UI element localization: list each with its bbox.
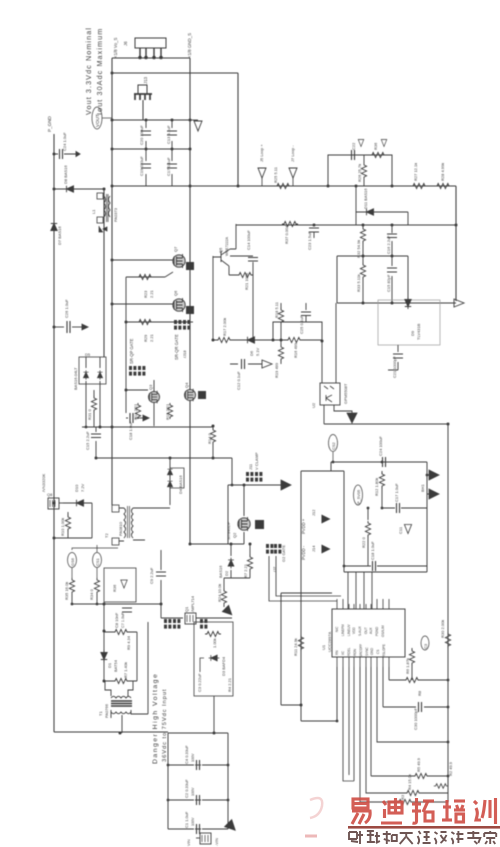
capacitor C20 330uF: [139, 120, 151, 149]
bias diode D1 BAT54: [101, 604, 118, 681]
net label PVDD: [301, 518, 306, 560]
resistor R18 5.11: [274, 301, 284, 340]
capacitor C22: [351, 140, 364, 161]
resistor R26 25.7k: [357, 155, 367, 186]
wire right sense vertical: [455, 186, 457, 301]
wire output rail C: [112, 119, 190, 121]
wire mid rail upper: [82, 426, 213, 428]
ground arrow top: [190, 120, 202, 131]
IC U1 pin names: [335, 624, 386, 657]
resistor R27 12.1k: [411, 163, 427, 189]
dual diode D5 BAS16-04LT: [73, 352, 106, 427]
diode D2 BAS16: [218, 544, 250, 590]
resistor R7b 1.40k: [104, 662, 137, 684]
wire opto output row: [324, 423, 448, 425]
warning text Danger High Voltage: [152, 673, 168, 764]
node BH1 arrows: [420, 470, 439, 499]
wire PVDD box: [344, 462, 427, 572]
capacitor C25 0.1uF: [299, 303, 311, 334]
capacitor C16 2.2uF: [386, 225, 397, 256]
diode D7 BAS16: [51, 221, 62, 245]
resistor R25 5.11: [273, 166, 291, 188]
capacitor C11: [398, 525, 412, 535]
wire U1 left frame: [281, 593, 332, 705]
resistor R19 499: [274, 340, 284, 378]
capacitor C24b 100uF: [378, 436, 386, 467]
watermark text Pei (培): [442, 800, 465, 822]
resistor R12 1.80k: [374, 471, 385, 508]
resistor R15 2.21: [165, 403, 173, 420]
transformer T1 PA0766: [98, 622, 148, 733]
IC U1 UCC2897A: [321, 599, 405, 667]
wire lower compensation box: [337, 256, 456, 303]
resistor R33 5.11k: [356, 256, 366, 303]
capacitor C17 0.1uF: [166, 149, 177, 186]
transistor Q1 MPL714: [161, 595, 232, 624]
inductor L1 PA0373: [91, 193, 118, 232]
dual diode D4 BAS16-04: [167, 458, 184, 505]
node C26 oval: [421, 636, 429, 650]
resistor R36: [370, 140, 387, 158]
resistor R5 49.9: [371, 667, 448, 779]
capacitor C13 0.1uF: [166, 120, 177, 149]
connector J18 pads: [174, 320, 190, 358]
resistor R34 0: [89, 578, 100, 604]
wire output top rail: [112, 57, 190, 59]
watermark text Di (迪): [381, 798, 402, 823]
resistor R10 1.00k: [60, 512, 71, 538]
resistor R3: [360, 667, 448, 805]
resistor R14 0: [207, 427, 216, 458]
connector SR-QP pads: [129, 366, 145, 376]
transistor Q5: [213, 224, 236, 340]
capacitor C15a 2.2uF: [85, 427, 101, 458]
capacitor C17b 1.0uF: [382, 483, 427, 513]
wire bus B vertical: [189, 58, 191, 544]
zener D10 7.2V: [54, 483, 92, 538]
transistor Q2 SI7846DP: [226, 517, 264, 540]
resistor R17 2.00k: [213, 318, 240, 343]
wire right bus down: [447, 424, 449, 802]
watermark divider line: [348, 826, 500, 829]
test point J12: [311, 509, 330, 523]
watermark text Yi (易): [352, 799, 370, 824]
shunt reference D9 TLV431B: [378, 297, 440, 345]
arrow clamp node: [281, 480, 291, 490]
snubber box R8 D3 C3 R4: [194, 622, 233, 733]
node GS6 oval: [68, 548, 119, 578]
watermark text 射频和天线设计专家 row: [349, 831, 363, 844]
connector J6: [123, 38, 166, 59]
capacitor C9 2.2uF: [149, 550, 166, 618]
wire compensation loop box: [328, 155, 392, 186]
transistor J13: [134, 76, 152, 120]
wire R11 to U1: [301, 667, 337, 721]
node CS1 oval: [93, 545, 102, 578]
resistor R36 box: [104, 568, 136, 602]
wire bus A vertical: [111, 58, 113, 505]
transistor Q8 VN3320K: [41, 473, 63, 509]
node F_5V05 oval: [354, 485, 363, 505]
transistor Q4: [184, 380, 206, 426]
resistor R29 2.21: [126, 277, 193, 390]
capacitor C12 0.1uF: [230, 359, 272, 390]
resistor R16 499: [273, 337, 322, 358]
node VOUT oval label: [92, 107, 112, 129]
wire D8 branch vertical: [103, 189, 105, 357]
capacitor C2 0.33uF 100V: [184, 779, 202, 805]
transformer T2 PA0810: [104, 473, 170, 545]
connector J11 V CLAMP: [246, 452, 262, 481]
wire snubber rail: [96, 457, 232, 459]
capacitor C15 82pF: [386, 256, 397, 303]
test point J14: [311, 545, 330, 553]
test point J7 Loop -: [289, 145, 297, 186]
wire long feedback rail: [112, 185, 456, 187]
transistor Q3: [126, 380, 160, 426]
capacitor C30 1000pF: [383, 667, 448, 730]
wire bottom rail to input: [54, 731, 168, 733]
wire R16 gate loop: [273, 322, 322, 341]
wire clamp loop: [190, 458, 282, 544]
capacitor C21 1000pF: [388, 345, 403, 378]
sense arrow right: [454, 299, 464, 307]
resistor R31 0: [87, 390, 97, 427]
diode D8 BAS16: [54, 165, 104, 193]
wire pins down bundle: [343, 667, 354, 781]
resistor R21 100k: [229, 262, 253, 340]
wire stair sync: [377, 667, 448, 742]
resistor R22 0: [361, 508, 371, 566]
connector pads left of Q1: [164, 619, 180, 629]
wire output rail D: [112, 148, 190, 150]
resistor R6 1.87k: [389, 667, 448, 696]
diode D11 BAS16: [236, 186, 456, 225]
wire gate bundle to U1: [269, 556, 372, 609]
capacitor C1 1.0uF 100V: [184, 811, 202, 834]
resistor R7 2.21: [243, 555, 253, 578]
wire output second rail: [112, 72, 238, 74]
capacitor C18b 1.0uF: [344, 541, 427, 571]
capacitor C4 0.33uF 100V: [184, 745, 202, 770]
capacitor C8 10nF: [114, 608, 132, 628]
resistor R32 54.9k: [356, 225, 366, 258]
resistor R30 2.00k: [440, 620, 451, 648]
optocoupler U2 GPM5508T: [311, 303, 352, 424]
capacitor C24 1.0uF: [54, 132, 80, 159]
resistor R13 2.21: [133, 403, 141, 420]
resistor R4 15.0k: [366, 667, 448, 796]
watermark text Tuo (拓): [412, 798, 434, 823]
watermark text Xun (训): [474, 798, 496, 824]
capacitor C23 1.5uF: [307, 224, 319, 250]
ground arrow under opto: [347, 413, 357, 423]
capacitor C26 1.0uF tap: [54, 299, 88, 333]
resistor R24 10.0k: [217, 584, 227, 607]
capacitor C19 330uF: [139, 149, 151, 186]
transistor Q7: [112, 246, 194, 270]
zener D6 5.1V: [240, 337, 273, 356]
watermark ghost logo: [305, 798, 322, 836]
resistor R2 49.9: [434, 761, 453, 788]
resistor R35 16.0k: [64, 578, 161, 604]
test point J5 Loop +: [258, 144, 266, 186]
arrow input return: [225, 820, 239, 834]
wire bias top rail: [301, 462, 427, 721]
wire P_GND bus: [53, 134, 55, 732]
wire bus C vertical: [237, 73, 239, 186]
title Vout 3.3Vdc Nominal Iout 30Adc Maximum: [84, 27, 104, 115]
connector G2 GATE pads: [266, 544, 286, 572]
connector J1 VIN: [186, 833, 219, 846]
resistor R23 2.21: [126, 272, 173, 298]
node CS2 oval: [329, 435, 338, 463]
connector pads right of Q1: [200, 619, 207, 629]
capacitor C18 1.0uF tap: [126, 390, 149, 440]
capacitor C14 100uF: [230, 230, 258, 261]
node P_GND label: [47, 108, 54, 132]
transistor Q6: [112, 290, 194, 314]
resistor R11 24.9k: [293, 635, 304, 656]
resistor R6b 1.87k vertical: [405, 648, 415, 680]
resistor R28 4.99k: [435, 163, 451, 189]
wire input filter box: [168, 733, 228, 829]
ground arrow under R24: [222, 605, 235, 618]
resistor R37 0.004: [282, 221, 298, 244]
wire error amp row: [0, 0, 1, 1]
resistor R9 4.34: [104, 629, 137, 681]
